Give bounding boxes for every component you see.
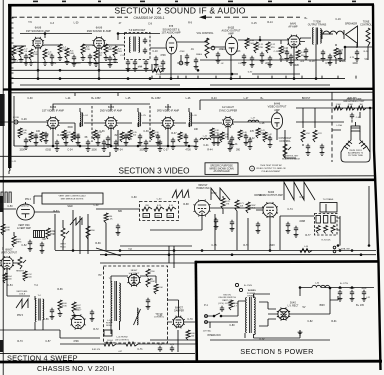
CRT yoke hatch left — [344, 141, 352, 149]
svg-text:AMP: AMP — [228, 33, 234, 36]
capacitor HV — [146, 298, 150, 304]
scan mark mid-left edge — [0, 196, 3, 212]
ground bottom row — [50, 311, 95, 321]
label V5 — [288, 22, 298, 28]
caps sync area — [212, 134, 248, 146]
wire bottom section5 — [254, 330, 303, 338]
resistor R-30 — [18, 128, 22, 138]
svg-text:R-10: R-10 — [249, 40, 255, 42]
svg-text:1500: 1500 — [19, 148, 25, 151]
gnd sec4 extra — [28, 230, 121, 253]
value label — [300, 61, 305, 63]
resistor sect4 mid a — [86, 226, 96, 239]
ground under capacitor — [24, 60, 29, 65]
label R-36 — [154, 132, 159, 137]
resistor R-33 — [93, 130, 97, 140]
capacitor section2 — [250, 56, 254, 62]
subtitle CHASSIS NO. V 2201-1 — [37, 364, 115, 373]
stray label sec2 top — [50, 22, 55, 25]
output transformer T2 core — [316, 28, 317, 45]
divider resistors — [316, 216, 335, 234]
svg-text:C-15: C-15 — [251, 22, 257, 25]
capacitor section2 — [88, 54, 92, 60]
ground HV — [146, 304, 151, 309]
output transformer T2 secondary — [320, 29, 321, 44]
svg-text:680: 680 — [118, 210, 123, 213]
heater line sec2 left — [20, 84, 180, 86]
resistor top right sect4 — [300, 249, 312, 253]
contrast control — [283, 144, 291, 158]
label C-33 — [75, 134, 80, 139]
capacitor section2 — [242, 54, 246, 60]
capacitor section2 — [338, 50, 342, 56]
svg-text:6.3V: 6.3V — [260, 338, 265, 341]
label linearity — [115, 337, 130, 342]
width control coil — [134, 308, 141, 325]
svg-text:8.2K: 8.2K — [157, 205, 162, 207]
resistor hold b — [235, 200, 244, 211]
svg-text:B+ 135V: B+ 135V — [151, 97, 161, 100]
capacitor section2 — [268, 56, 272, 62]
resistor C-35 — [120, 132, 124, 142]
resistor R-10 1500 — [245, 38, 255, 49]
vert output transformer — [35, 295, 44, 321]
svg-text:1500: 1500 — [67, 126, 73, 129]
svg-text:5U4G: 5U4G — [290, 302, 296, 304]
T1 trimmer caps — [143, 38, 147, 54]
svg-text:SEE SERVICE NOTES: SEE SERVICE NOTES — [61, 198, 84, 200]
svg-text:220K: 220K — [265, 62, 271, 65]
peaking coil L-23 — [248, 118, 259, 122]
svg-text:VOL CONTROL: VOL CONTROL — [196, 32, 214, 35]
labels sec4 right — [287, 208, 311, 237]
sawtooth small mid — [70, 218, 82, 225]
wire section2 plate run V1-V2 — [20, 34, 92, 39]
ground under capacitor — [171, 144, 176, 149]
tube V11 6SN7GT vert osc — [17, 202, 35, 220]
labels divider — [321, 239, 350, 252]
label V17 — [174, 308, 184, 313]
svg-text:1B3GT: 1B3GT — [131, 270, 139, 272]
svg-text:C-57: C-57 — [45, 340, 51, 343]
svg-text:C-60: C-60 — [157, 199, 163, 201]
flyback transformer primary — [111, 282, 112, 323]
svg-text:R-73: R-73 — [17, 340, 23, 343]
wire rect output — [268, 288, 330, 314]
stray value sec2 — [309, 60, 315, 63]
stray label sec2 top — [335, 18, 341, 21]
svg-text:25MF: 25MF — [340, 60, 347, 63]
wire sect4 osc row — [34, 209, 140, 212]
svg-text:C-30: C-30 — [27, 97, 33, 100]
resistor near damper — [186, 330, 195, 340]
junction dots bus section2 — [37, 77, 318, 80]
svg-text:C-60: C-60 — [131, 196, 137, 199]
capacitor section2 — [144, 60, 148, 66]
resistor L-2 section2 — [58, 44, 62, 55]
tube V15 vert amp — [70, 314, 85, 329]
labels sec5 scatter — [204, 304, 364, 341]
wire video input run — [0, 121, 47, 123]
svg-text:SPEAKER: SPEAKER — [345, 21, 357, 25]
comb waveform top left — [1, 192, 11, 203]
label R-1 — [16, 48, 21, 53]
cap sec3 extra row — [34, 134, 220, 140]
value label — [196, 54, 202, 56]
wire choke run — [300, 288, 374, 297]
vertical dash separator — [331, 96, 333, 162]
svg-text:6.3V: 6.3V — [248, 72, 253, 74]
label control set note — [282, 156, 300, 161]
svg-text:VERT OUTPUT: VERT OUTPUT — [1, 252, 18, 254]
label C-31 — [33, 134, 38, 139]
ground below R-2 — [29, 60, 34, 65]
tick on lower bus — [337, 76, 339, 79]
svg-text:R-68: R-68 — [183, 203, 189, 206]
wire sec2 right drops — [281, 40, 357, 64]
stray label sec2 top — [148, 23, 153, 26]
stray value sec2 — [265, 62, 271, 65]
svg-text:BOOST: BOOST — [302, 97, 311, 100]
ground under capacitor — [260, 58, 265, 63]
svg-text:HEIGHT: HEIGHT — [16, 271, 25, 273]
sawtooth waveform A — [211, 188, 230, 200]
svg-text:27K: 27K — [128, 138, 133, 141]
resistor C-4 section2 — [43, 49, 47, 60]
svg-text:2.2K: 2.2K — [242, 135, 247, 137]
capacitor section2 — [154, 56, 158, 62]
svg-text:R-12: R-12 — [270, 44, 276, 46]
scan mark low-left edge — [0, 340, 3, 352]
junction dots sect4 — [72, 249, 363, 256]
resistor R-13 450 — [296, 50, 306, 60]
svg-text:10MF: 10MF — [293, 64, 300, 67]
svg-text:L-20: L-20 — [74, 21, 79, 24]
svg-text:SPECIFIC PURPOSE: SPECIFIC PURPOSE — [210, 165, 233, 167]
wire right column verticals — [303, 92, 360, 146]
cap sec2 right extra — [289, 54, 332, 60]
ground under capacitor — [268, 62, 273, 67]
label R-38 — [214, 130, 219, 135]
svg-text:1.2K: 1.2K — [108, 219, 113, 221]
resistor bottom row 2 — [72, 302, 81, 313]
svg-text:OSC: OSC — [211, 192, 216, 195]
tube V1 6AU6 1st sound IF — [32, 37, 44, 49]
wire bus section2 ground run — [11, 62, 118, 64]
resistor hold c — [246, 202, 256, 213]
wire AC input — [205, 316, 238, 328]
svg-text:1ST SOUND IF AMP: 1ST SOUND IF AMP — [26, 29, 50, 33]
svg-text:WIRES SHOWN CONN: WIRES SHOWN CONN — [209, 168, 234, 170]
svg-text:4.7K: 4.7K — [350, 57, 355, 59]
stray value sec2 — [152, 50, 158, 53]
integrator resistors — [142, 205, 176, 211]
ground below C-2 — [19, 57, 24, 62]
wire section2 output plate — [300, 38, 311, 42]
svg-text:HORIZ OUTPUT AMP: HORIZ OUTPUT AMP — [259, 194, 283, 197]
svg-text:C-80: C-80 — [229, 324, 235, 327]
ground under capacitor — [55, 146, 60, 151]
svg-text:L-25: L-25 — [126, 97, 131, 100]
IF coil L-4 — [80, 108, 83, 127]
resistor R-35 — [128, 130, 132, 140]
label V7 — [100, 106, 123, 112]
svg-text:C-54: C-54 — [7, 284, 13, 287]
svg-text:L-21: L-21 — [12, 161, 17, 163]
stray value sec2 — [236, 50, 241, 53]
label R-6 — [99, 52, 103, 57]
resistor bottom row 1 — [58, 300, 67, 311]
wire video plate top run — [53, 104, 168, 111]
label flyback — [108, 278, 112, 280]
section 2 bottom thick rule — [3, 88, 374, 91]
resistor R-31 — [40, 132, 44, 142]
svg-text:R-34: R-34 — [117, 148, 123, 151]
capacitor section3 — [268, 136, 272, 142]
ground below R-1 — [12, 57, 17, 62]
tick on lower bus — [301, 76, 303, 79]
svg-text:470K: 470K — [73, 340, 79, 343]
label V16 — [129, 270, 140, 275]
svg-text:R-20: R-20 — [364, 51, 370, 53]
svg-text:VERT OSC: VERT OSC — [18, 225, 30, 227]
label V11b — [17, 225, 31, 230]
svg-text:3300: 3300 — [117, 51, 123, 53]
resistor R-12 470 — [266, 42, 276, 53]
capacitor section3 — [158, 140, 162, 146]
svg-text:470K: 470K — [158, 287, 163, 289]
svg-text:2.2M: 2.2M — [158, 66, 163, 68]
value label — [76, 63, 82, 65]
ground under capacitor — [72, 61, 77, 66]
output transformer T2 primary — [313, 28, 314, 45]
title SECTION 3 VIDEO — [119, 167, 190, 176]
svg-text:3.3K: 3.3K — [22, 133, 27, 135]
ground under capacitor — [216, 58, 221, 63]
stray value sec2 — [219, 48, 226, 51]
tube V10 6AH6 video output — [271, 111, 282, 129]
resistor sect4 mid b — [104, 213, 113, 223]
wire section2 V2 plate to T1 — [105, 34, 160, 46]
svg-text:L-27: L-27 — [251, 118, 256, 120]
svg-text:4700: 4700 — [185, 148, 191, 151]
svg-text:AMP: AMP — [274, 109, 280, 112]
label V14 — [1, 249, 18, 254]
svg-text:CHASSIS NO. V 220I-I: CHASSIS NO. V 220I-I — [37, 364, 115, 373]
gnd sec2 right extra — [289, 60, 333, 65]
svg-text:C-10: C-10 — [152, 50, 158, 53]
ground under capacitor — [185, 60, 190, 65]
svg-text:10K: 10K — [225, 137, 229, 139]
capacitor section2 — [126, 60, 130, 66]
section 5 top border — [195, 260, 379, 263]
svg-text:L-41: L-41 — [158, 314, 163, 317]
labels bottom sect4 — [92, 344, 175, 353]
stray label sec2 top — [251, 22, 257, 25]
tube V16 1B3 HV rect — [127, 273, 140, 286]
capacitor section3 — [230, 136, 234, 142]
svg-text:LIN CONTROL: LIN CONTROL — [115, 339, 130, 341]
svg-text:R-82 470: R-82 470 — [92, 349, 101, 351]
svg-text:1500: 1500 — [76, 63, 82, 65]
wire sec5 extra — [268, 296, 338, 319]
resistor sec4 extra a — [46, 228, 56, 239]
page edge line — [2, 0, 4, 375]
resistor R-36 — [150, 130, 154, 140]
capacitor section2 — [185, 54, 189, 60]
ground under capacitor — [321, 56, 326, 61]
ground under capacitor — [250, 62, 255, 67]
label volume control — [196, 32, 214, 35]
svg-text:1MEG: 1MEG — [107, 49, 113, 51]
svg-text:2ND VIDEO IF AMP: 2ND VIDEO IF AMP — [100, 109, 123, 112]
value label — [364, 51, 370, 53]
labels sec4 scatter — [7, 192, 304, 351]
stray value sec2 — [190, 48, 194, 51]
subtitle chassis V-2205-1 — [133, 16, 164, 20]
svg-text:OUTPUT TRANS: OUTPUT TRANS — [308, 23, 327, 26]
svg-text:4.7K: 4.7K — [317, 133, 322, 135]
ground under capacitor — [108, 62, 113, 67]
svg-text:MLA RESISTANCE: MLA RESISTANCE — [282, 157, 300, 160]
stray value sec2 — [160, 54, 166, 57]
svg-text:1ST AUDIO AMP: 1ST AUDIO AMP — [162, 31, 181, 34]
value label — [274, 51, 280, 53]
wire sect4 long verticals right — [326, 186, 369, 246]
svg-text:.003: .003 — [236, 50, 241, 53]
label R-39 — [224, 134, 229, 139]
wire sec4 osc verticals — [34, 196, 106, 250]
T1 primary coil — [129, 37, 130, 52]
label width control — [154, 314, 165, 319]
value label — [350, 57, 355, 59]
IF coil L-5 — [138, 108, 141, 127]
tube V18 5U4G rectifier — [277, 307, 290, 320]
stray value sec2 — [364, 58, 368, 61]
svg-text:470K: 470K — [160, 54, 166, 57]
label R-2 — [33, 51, 39, 56]
title SECTION 2 SOUND IF & AUDIO — [114, 5, 245, 15]
stray label sec2 top — [74, 21, 79, 24]
resistor C-2 section2 — [19, 46, 23, 57]
svg-text:DRIVE: DRIVE — [106, 325, 113, 327]
label R-8 — [117, 48, 123, 53]
svg-text:1500: 1500 — [139, 148, 145, 151]
ground below R-8 — [113, 57, 118, 62]
svg-text:SW ON: SW ON — [223, 294, 231, 296]
ground under capacitor — [154, 62, 159, 67]
label C-38 — [182, 134, 187, 139]
svg-text:6W4GT: 6W4GT — [175, 308, 184, 310]
wire sect4 vert feeds — [55, 210, 88, 254]
label R-4 — [69, 50, 75, 55]
scan mark top-left edge — [0, 94, 5, 126]
filter capacitors — [338, 290, 366, 296]
tube V8 6CB6 3rd video IF — [162, 117, 175, 130]
svg-text:T-9505: T-9505 — [248, 290, 256, 292]
svg-text:1MEG: 1MEG — [219, 48, 226, 51]
svg-text:CONTRAST: CONTRAST — [279, 137, 292, 140]
right border — [373, 5, 381, 370]
speaker voice coil — [322, 30, 344, 39]
svg-text:.047: .047 — [42, 238, 47, 241]
section 3 top rule — [8, 91, 374, 94]
svg-text:INTERLOCK: INTERLOCK — [207, 334, 221, 337]
vert hold pot — [60, 228, 69, 248]
svg-text:1.5M: 1.5M — [336, 104, 341, 106]
sawtooth waveform B — [284, 182, 315, 200]
tone control pot — [366, 28, 370, 60]
svg-text:.005: .005 — [144, 216, 148, 218]
capacitor section2 — [133, 60, 137, 66]
label horiz output — [259, 191, 283, 197]
capacitor line filter — [220, 306, 224, 312]
svg-text:R-9: R-9 — [188, 21, 193, 24]
drive trimmer box — [104, 330, 114, 345]
T1 core — [134, 37, 135, 52]
wire section3 right rows — [296, 108, 374, 122]
wire antenna input stub — [13, 45, 26, 47]
svg-text:1M: 1M — [359, 104, 362, 106]
ground under capacitor — [242, 60, 247, 65]
svg-text:VIDEO OUTPUT TO GRID OF: VIDEO OUTPUT TO GRID OF — [256, 168, 286, 170]
svg-text:C-82: C-82 — [307, 320, 313, 323]
capacitor right area — [306, 144, 324, 150]
svg-text:TRANS: TRANS — [247, 295, 255, 298]
svg-text:470K: 470K — [179, 51, 185, 53]
svg-text:R-91: R-91 — [331, 320, 337, 323]
T1 secondary coil — [139, 37, 140, 52]
stray value sec2 — [293, 64, 300, 67]
capacitor section2 — [355, 50, 359, 56]
label R-33 — [97, 132, 102, 137]
resistor R-8 section2 — [113, 46, 117, 57]
svg-text:L-30: L-30 — [94, 204, 99, 207]
svg-text:C-75: C-75 — [211, 244, 217, 247]
capacitor section2 — [321, 50, 325, 56]
tick on lower bus — [239, 76, 241, 79]
svg-text:& VERT AMP: & VERT AMP — [17, 227, 31, 230]
value label — [179, 51, 185, 53]
svg-text:2ND SOUND IF AMP: 2ND SOUND IF AMP — [87, 29, 112, 33]
title SECTION 4 SWEEP — [7, 353, 78, 362]
label L-5 — [141, 115, 146, 117]
capacitor section3 — [144, 140, 148, 146]
capacitor section2 — [260, 52, 264, 58]
value label — [120, 55, 124, 57]
ground under capacitor — [285, 56, 290, 61]
AC plug symbol — [203, 315, 212, 333]
scan specks top margin — [33, 1, 356, 3]
svg-text:470K: 470K — [85, 49, 91, 51]
tick on lower bus — [271, 76, 273, 79]
resistor hold a — [221, 198, 230, 209]
dashed chassis boundary arrow — [199, 15, 300, 19]
section 3 bottom thin rule — [0, 176, 375, 177]
tube V4 6AQ5 audio output — [225, 35, 237, 55]
svg-text:C-56: C-56 — [43, 318, 49, 321]
label V15 — [75, 309, 82, 312]
B+ terminal circles — [235, 283, 256, 292]
resistor R-1 section2 — [12, 46, 16, 57]
svg-text:12AU7: 12AU7 — [75, 309, 82, 312]
resistor HV filter — [154, 284, 163, 294]
svg-text:PICTURE TUBE: PICTURE TUBE — [348, 155, 363, 157]
boxed note vert osc — [42, 193, 103, 204]
stray label sec2 top — [119, 22, 122, 25]
ground under capacitor — [230, 142, 235, 147]
label V10 — [268, 103, 287, 112]
